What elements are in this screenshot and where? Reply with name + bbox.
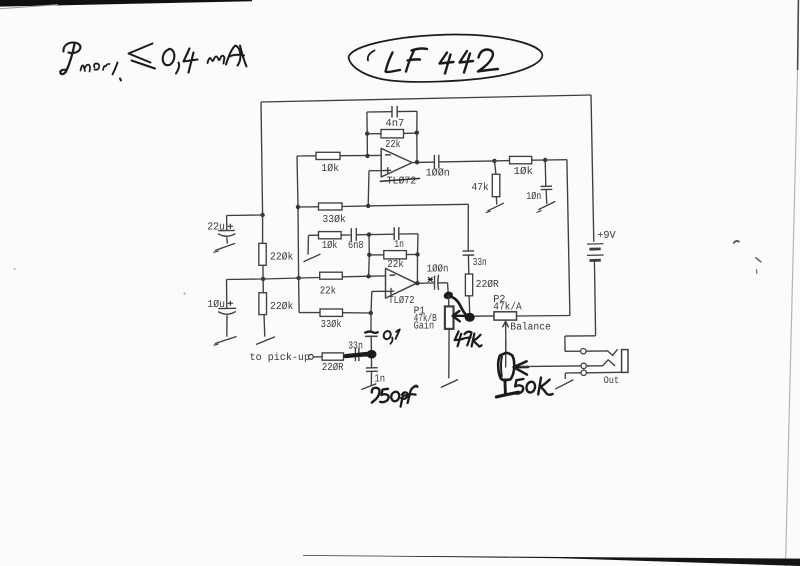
capacitor 4n7 (op1 feedback) <box>392 106 397 118</box>
label P1 <box>414 305 426 317</box>
label 100n op2 <box>427 263 449 275</box>
svg-text:Balance: Balance <box>510 322 551 334</box>
wire: op1 + bias rail (J3 to 330k) <box>298 206 319 208</box>
label TL072 op1 (struck through) <box>380 175 420 187</box>
wire: 22k to op2 inverting input <box>342 275 385 278</box>
capacitor 33n (pickup series) <box>355 348 359 362</box>
ground (jack sleeve) <box>556 380 573 389</box>
label 22k op2 feedback <box>387 259 404 271</box>
wire: 33n to 220R <box>467 255 469 274</box>
node J14 (pickup junction blob) <box>367 350 377 359</box>
wire: jack sleeve ground stub <box>565 373 581 379</box>
svg-text:33Øk: 33Øk <box>322 214 345 226</box>
wire: terminal to 220R <box>313 356 322 358</box>
resistor 47k (to ground) <box>492 174 500 197</box>
resistor 330k (op1 bias input) <box>319 203 343 210</box>
wire: feedback T-row (10k 6n8 1n) <box>341 234 351 236</box>
resistor 22k (op2 input) <box>320 272 343 279</box>
svg-text:22k: 22k <box>387 259 404 271</box>
battery B1 +9V <box>587 244 604 261</box>
label Out <box>604 376 620 387</box>
wire: 10u to ground <box>226 315 228 336</box>
wire: bias rail J2 left to 10u <box>227 279 264 308</box>
wire: J13 down to 0,1 cap <box>370 313 372 332</box>
node J5 <box>366 204 370 208</box>
wire: 47k to ground <box>495 197 498 205</box>
label 220k upper <box>270 252 293 264</box>
node J16 <box>415 252 419 256</box>
svg-text:Gain: Gain <box>414 321 435 333</box>
label 330k op1 <box>322 214 345 226</box>
wire: 330k to J13 <box>343 312 372 314</box>
svg-text:Out: Out <box>604 376 620 387</box>
svg-text:22Øk: 22Øk <box>270 301 293 313</box>
output jack terminal 3 (sleeve) <box>581 370 586 375</box>
svg-text:1Øk: 1Øk <box>321 163 339 175</box>
capacitor 1n (op2 feedback) <box>394 227 399 240</box>
resistor 22k (op1 feedback) <box>367 130 417 138</box>
handwritten label 50k <box>515 378 553 395</box>
output jack terminal 2 (tip) <box>581 363 586 368</box>
handwritten label LF 442 <box>386 49 499 74</box>
wire: J15 to 1n cap <box>369 233 394 235</box>
node J1 (22u tap) <box>260 213 264 217</box>
svg-text:1ØØn: 1ØØn <box>426 168 450 180</box>
handwritten label 0,1 <box>384 329 400 343</box>
handwritten label 47k at P1 <box>455 331 482 346</box>
wire: left vertical V1 (top rail to bias divider) <box>261 102 263 215</box>
hand curve: P1 wiper link to P2 node <box>451 297 468 316</box>
label 1n op2 <box>394 239 404 251</box>
wire: 220k to J2 <box>262 265 264 279</box>
wire: op2 bias row (V2 to 330k) <box>299 312 320 314</box>
wire: 6n8 to J15 <box>356 234 369 236</box>
label 33n riser <box>473 257 487 269</box>
potentiometer P1 47k/B body <box>445 306 454 329</box>
wire: 22u branch <box>227 215 263 230</box>
hand arrow into P1 wiper <box>453 311 465 321</box>
svg-text:to pick-up: to pick-up <box>250 352 310 364</box>
wire: battery negative down to jack <box>565 260 596 351</box>
svg-text:47k: 47k <box>472 182 489 194</box>
svg-text:22u: 22u <box>207 222 225 234</box>
svg-text:1Øk: 1Øk <box>322 240 338 252</box>
hand overdraw stroke on pickup wire <box>346 354 368 356</box>
label 6n8 <box>348 240 364 252</box>
wire: 50k bottom lead <box>503 380 506 394</box>
label TL072 op2 <box>388 295 414 307</box>
resistor 10k (output filter) <box>510 156 532 163</box>
label Balance <box>510 322 551 334</box>
label Gain <box>414 321 435 333</box>
wire: 33n to node J14 <box>359 355 368 357</box>
svg-text:22ØR: 22ØR <box>322 362 344 374</box>
wire: J12 down to 10n <box>544 160 547 186</box>
wire: jack sleeve to body <box>586 371 621 374</box>
svg-text:33Øk: 33Øk <box>321 319 342 331</box>
ground (50k, hand-drawn) <box>496 392 518 397</box>
node J3 (330k op1 tap) <box>296 205 300 209</box>
output jack body <box>622 350 628 373</box>
wire: V3 riser down to 33n <box>467 204 469 251</box>
wire: V7 down to op2 output <box>416 254 418 283</box>
wire: 10k T left leg to ground <box>308 235 319 254</box>
wire: J9 to op1 output node <box>416 133 418 163</box>
wire: 10k to J12 <box>532 159 546 161</box>
ground (47k) <box>486 203 504 212</box>
ground (bias divider) <box>257 337 275 344</box>
handwritten label 250pf <box>372 386 418 407</box>
wire: jack tip line to 50k wiper <box>519 365 581 368</box>
wire: 10n to ground <box>545 190 548 204</box>
wire: feedback vertical V4 lower <box>366 134 368 156</box>
wire: blob to P1 <box>448 295 450 306</box>
wire: 0,1 cap to pickup node <box>370 337 372 351</box>
label 22u <box>207 222 225 234</box>
wire: 100n to P1 top corner <box>439 283 449 295</box>
svg-text:22k: 22k <box>385 139 400 151</box>
svg-text:6n8: 6n8 <box>348 240 364 252</box>
svg-text:33n: 33n <box>348 341 363 353</box>
label 22k op2 input <box>320 285 336 297</box>
wire: op1 non-inverting input drop <box>368 171 385 206</box>
handwritten note I_nor <= 0,4 mA <box>60 43 246 81</box>
svg-text:33n: 33n <box>473 257 487 269</box>
wire: J12 to V5 corner <box>545 159 567 161</box>
node J11 (47k tap) <box>492 159 496 163</box>
ground (P1) <box>441 380 457 387</box>
label 220R riser <box>476 279 500 291</box>
wire: jack tip contact <box>586 360 614 366</box>
node J19 (op2 feedback tap) <box>366 274 370 278</box>
op-amp U1B TL072 triangle <box>386 268 417 298</box>
capacitor 1n (pickup to ground) <box>366 368 378 372</box>
wire: op2 inverting rail from J4 <box>299 277 320 280</box>
label 10k op1 <box>321 163 339 175</box>
handwritten oval around LF 442 <box>349 35 543 82</box>
label 47k/A <box>493 302 522 314</box>
terminal circle (pickup input) <box>309 355 314 360</box>
P2 wiper arrow <box>503 321 509 353</box>
capacitor 6n8 (T-network) <box>351 228 356 241</box>
label to pick-up <box>250 352 310 364</box>
wire: jack terminal 1 to switch contact <box>586 350 617 356</box>
wire: bias rail J2 to J4 <box>263 278 299 279</box>
wire: 220R to 33n <box>344 355 356 357</box>
svg-text:1Øn: 1Øn <box>526 191 541 203</box>
wire: J2 to lower 220k <box>262 279 264 293</box>
wire: J6 to P2 <box>475 315 494 317</box>
node J18 <box>367 253 371 257</box>
label 22k op1 feedback <box>385 139 400 151</box>
potentiometer P2 47k/A body <box>494 312 517 320</box>
resistor 220k (upper bias) <box>259 243 266 265</box>
wire: battery vertical drop (+9V feed) <box>591 95 594 242</box>
label P2 <box>493 294 505 306</box>
label 4n7 <box>385 118 404 130</box>
svg-text:47k/A: 47k/A <box>493 302 522 314</box>
label 220k lower <box>270 301 293 313</box>
wire: vertical V2 (bias feed) <box>297 156 299 313</box>
potentiometer 50k hand-drawn body <box>498 353 514 380</box>
svg-text:1n: 1n <box>394 239 404 251</box>
wire: op1 output to coupling cap <box>412 161 434 164</box>
label +9V <box>597 230 616 242</box>
resistor 220R (riser) <box>465 274 472 296</box>
node J8 <box>365 131 369 135</box>
capacitor 0,1 (hand-amended plates) <box>365 332 378 337</box>
label 10u <box>207 299 225 311</box>
svg-text:+9V: +9V <box>597 230 616 242</box>
svg-text:1Øk: 1Øk <box>514 166 534 178</box>
svg-text:1ØØn: 1ØØn <box>427 263 449 275</box>
label 47k/B <box>414 313 438 325</box>
wire: feedback vertical V8 <box>368 235 371 277</box>
label 10n <box>526 191 541 203</box>
resistor 10k (op2 T-network) <box>319 232 342 239</box>
ground (T-network) <box>304 254 320 261</box>
ground (10u) <box>214 337 237 346</box>
wire: 10k to op1 inverting input <box>340 154 381 156</box>
svg-text:4n7: 4n7 <box>385 118 404 130</box>
node J9 <box>415 131 419 135</box>
node J12 (10n tap) <box>543 158 547 162</box>
label 10k op2 <box>322 240 338 252</box>
wire: 330k to J5 <box>342 205 368 208</box>
svg-text:TLØ72: TLØ72 <box>388 295 414 307</box>
page scan: top edge black wedge <box>0 0 252 9</box>
wire: op1 inverting rail <box>297 155 316 157</box>
capacitor 100n (op1 output coupling) <box>434 155 438 169</box>
label 33n pickup <box>348 341 363 353</box>
wire: op2 non-inverting drop <box>371 291 388 313</box>
wire: 4n7 loop right riser <box>397 111 417 132</box>
capacitor 10u electrolytic <box>218 301 236 314</box>
node J10 (op1 output) <box>415 160 419 164</box>
node J2 (bias midpoint) <box>261 277 265 281</box>
node J15 <box>367 232 371 236</box>
label 1n pickup <box>374 374 385 386</box>
svg-text:22ØR: 22ØR <box>476 279 500 291</box>
wire: V5 to P2 right terminal <box>517 315 570 318</box>
wire: P2 wiper into 50k pot <box>505 340 507 368</box>
node J7 (op1 feedback tap) <box>365 154 369 158</box>
svg-text:22k: 22k <box>320 285 336 297</box>
resistor 220k (lower bias) <box>259 293 267 315</box>
wire: J14 down to 1n <box>371 358 373 367</box>
wire: 1n to V7 riser <box>399 234 418 255</box>
ground (pickup 1n) <box>362 384 376 389</box>
svg-text:TLØ72: TLØ72 <box>387 175 417 187</box>
resistor 22k (op2 feedback) <box>369 251 417 259</box>
wire: lower 220k to ground <box>263 315 266 337</box>
capacitor 100n (op2 output coupling) <box>435 276 439 290</box>
wire: J11 to 10k filter <box>495 160 510 162</box>
label 100n op1 <box>426 168 450 180</box>
resistor 220R (pickup series) <box>322 353 343 360</box>
node blob J6 (P2 left / 220R bottom) <box>465 313 475 322</box>
label 10k filter <box>514 166 534 178</box>
op-amp U1A TL072 triangle <box>381 148 412 177</box>
svg-text:1Øu: 1Øu <box>207 299 225 311</box>
node blob (P1 top, hand ink) <box>443 290 454 300</box>
ground (10n) <box>537 202 555 213</box>
polarity mark at 100n <box>428 277 432 281</box>
wire: 4n7 loop left riser <box>367 112 392 134</box>
page scan: bottom edge black line <box>303 555 800 566</box>
wire: J5 to V3 corner (33n riser feed) <box>368 204 468 206</box>
label 220R pickup <box>322 362 344 374</box>
wire: 100n to J11 <box>439 161 495 162</box>
node J13 <box>369 311 373 315</box>
hand arrow into 50k wiper <box>514 361 528 374</box>
resistor 330k (op2 bias input) <box>320 309 343 316</box>
page scan: right page edge <box>786 0 799 566</box>
wire: 22u to ground <box>226 237 229 243</box>
capacitor 10n (to ground) <box>541 186 553 189</box>
node J4 (bias to op-amp inputs) <box>296 276 300 280</box>
page scan: small specks <box>14 241 761 295</box>
wire: P1 bottom to ground <box>448 329 450 378</box>
svg-text:22Øk: 22Øk <box>270 252 293 264</box>
ground (22u) <box>213 244 234 253</box>
label 47k <box>472 182 489 194</box>
output jack terminal 1 (from battery minus) <box>581 349 586 354</box>
wire: op2 output <box>416 282 434 284</box>
wire: J11 down to 47k <box>495 161 496 174</box>
wire: 1n to ground <box>370 372 372 386</box>
capacitor 22u electrolytic <box>218 224 235 236</box>
resistor 10k (op1 input) <box>316 152 340 159</box>
capacitor 33n (op1 bias riser) <box>463 251 475 255</box>
wire: V1 J1 to 220k <box>262 215 264 243</box>
wire: 220R to J6 blob <box>468 296 471 313</box>
wire: vertical V5 down to P2 <box>567 160 570 316</box>
wire: top supply rail <box>261 95 591 102</box>
node J17 (op2 output) <box>415 281 419 285</box>
label 330k op2 <box>321 319 342 331</box>
